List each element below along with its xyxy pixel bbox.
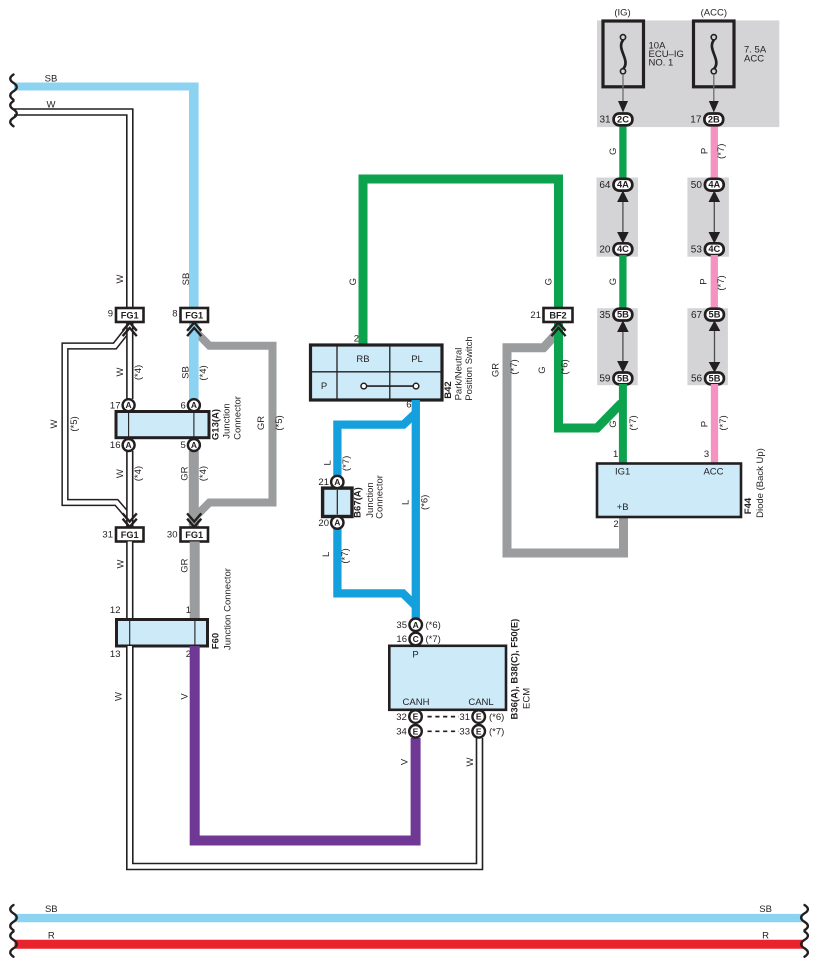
svg-text:GR: GR	[490, 363, 501, 377]
svg-text:F44: F44	[743, 497, 754, 514]
svg-text:CANL: CANL	[468, 697, 493, 708]
ECM pin 35 A (*6)	[396, 619, 440, 632]
junction connector F60	[110, 568, 234, 660]
chevrons below BF2	[551, 323, 565, 337]
wire G B42 pin 2 loop to BF2	[348, 179, 559, 345]
svg-text:50: 50	[691, 180, 703, 191]
svg-text:53: 53	[691, 244, 703, 255]
svg-text:(*4): (*4)	[198, 466, 209, 481]
wire SB (*4) FG1-8 to G13(A) pin 6	[180, 322, 209, 399]
svg-text:(*7): (*7)	[426, 634, 441, 645]
gray block 5B/5B right	[687, 308, 728, 385]
svg-text:IG1: IG1	[615, 467, 630, 478]
wire P (*7) 5B to F44 ACC pin 3	[699, 384, 729, 464]
svg-text:Connector: Connector	[233, 396, 244, 440]
svg-text:6: 6	[181, 400, 186, 411]
svg-text:GR: GR	[179, 466, 190, 480]
svg-text:30: 30	[167, 530, 178, 541]
wire SB (bottom rail)	[15, 904, 804, 918]
svg-text:20: 20	[318, 518, 329, 529]
arrow 5B to 5B left	[617, 320, 629, 372]
svg-text:E: E	[476, 726, 482, 736]
svg-text:(*5): (*5)	[69, 416, 80, 431]
svg-text:35: 35	[599, 310, 611, 321]
svg-text:W: W	[115, 274, 126, 283]
svg-text:Junction Connector: Junction Connector	[223, 568, 234, 650]
svg-text:G: G	[348, 278, 359, 285]
svg-text:Connector: Connector	[375, 475, 386, 519]
svg-text:P: P	[699, 148, 710, 154]
svg-text:3: 3	[704, 449, 709, 460]
svg-text:W: W	[115, 559, 126, 568]
svg-text:V: V	[179, 693, 190, 700]
chevrons above FG1-30	[187, 513, 201, 527]
svg-text:4A: 4A	[708, 180, 720, 190]
ECM pin 33 E (*7)	[459, 725, 504, 738]
svg-text:(*5): (*5)	[274, 415, 285, 430]
svg-text:1: 1	[613, 449, 618, 460]
svg-text:ACC: ACC	[744, 53, 764, 64]
connector 9 FG1	[108, 308, 144, 322]
wire P 4C to 5B	[699, 255, 727, 309]
svg-text:G13(A): G13(A)	[211, 409, 222, 440]
svg-text:W: W	[465, 757, 476, 766]
svg-text:35: 35	[396, 620, 407, 631]
svg-text:Position Switch: Position Switch	[464, 336, 475, 400]
svg-text:ECM: ECM	[522, 688, 533, 709]
svg-text:B67(A): B67(A)	[353, 487, 364, 518]
svg-text:4C: 4C	[617, 244, 629, 254]
svg-text:+B: +B	[617, 502, 629, 513]
svg-text:33: 33	[459, 727, 470, 738]
svg-text:8: 8	[172, 309, 177, 320]
svg-text:(*6): (*6)	[426, 620, 441, 631]
svg-text:(*7): (*7)	[341, 456, 352, 471]
svg-text:2: 2	[613, 519, 618, 530]
svg-text:L: L	[401, 500, 412, 505]
gray block 5B/5B left	[597, 308, 638, 385]
svg-text:20: 20	[599, 244, 611, 255]
svg-text:1: 1	[186, 605, 191, 616]
svg-text:(*7): (*7)	[718, 415, 729, 430]
svg-text:FG1: FG1	[185, 310, 203, 320]
svg-text:W: W	[115, 367, 126, 376]
svg-text:BF2: BF2	[549, 310, 566, 320]
ECM pin 16 C (*7)	[396, 633, 440, 646]
wire R (bottom rail)	[15, 931, 804, 945]
svg-text:P: P	[321, 381, 327, 392]
diode F44 (Back Up)	[597, 448, 766, 518]
svg-text:17: 17	[110, 400, 121, 411]
svg-text:SB: SB	[181, 273, 192, 286]
svg-text:(*6): (*6)	[560, 359, 571, 374]
svg-text:34: 34	[396, 727, 407, 738]
connector oval 17 2B	[690, 114, 723, 126]
svg-text:W: W	[115, 469, 126, 478]
wire G 4C to 5B	[608, 255, 623, 309]
svg-text:Park/Neutral: Park/Neutral	[454, 348, 465, 401]
connector 21 BF2	[530, 308, 572, 322]
wire GR (*4) G13(A) pin 5 to FG1-30	[179, 451, 209, 528]
harness continuation squiggle (SB bottom right)	[801, 905, 808, 930]
wire W F60 pin 13 to ECM pin 33	[113, 646, 479, 867]
svg-text:5B: 5B	[617, 373, 629, 383]
svg-text:GR: GR	[256, 416, 267, 430]
svg-text:A: A	[191, 400, 197, 410]
svg-text:59: 59	[599, 374, 611, 385]
wire W from harness (top left)	[14, 100, 130, 310]
harness continuation squiggle (SB top)	[10, 75, 17, 100]
connector oval 50 4A	[691, 179, 724, 191]
svg-text:PL: PL	[411, 354, 423, 365]
arrow fuse IG to 2C	[618, 74, 628, 113]
svg-text:CANH: CANH	[403, 697, 430, 708]
svg-text:A: A	[126, 400, 132, 410]
chevrons above FG1-31	[123, 513, 137, 527]
svg-text:GR: GR	[179, 558, 190, 572]
svg-text:ACC: ACC	[703, 467, 723, 478]
svg-text:R: R	[762, 931, 769, 942]
wire W (*5) bypass loop left of G13(A)	[49, 332, 129, 518]
arrow 4A to 4C left	[617, 191, 629, 244]
wire L (*6) B42 pin 6 to ECM pin 35	[401, 400, 431, 620]
svg-text:SB: SB	[45, 904, 58, 915]
chevrons below FG1-9	[123, 323, 137, 337]
svg-text:Diode (Back Up): Diode (Back Up)	[755, 448, 766, 518]
svg-text:R: R	[48, 931, 55, 942]
svg-text:21: 21	[530, 310, 541, 321]
arrow 4A to 4C right	[709, 191, 721, 244]
svg-text:4C: 4C	[708, 244, 720, 254]
connector oval 67 5B	[691, 309, 724, 321]
ECM pin 31 E (*6)	[459, 710, 504, 723]
connector oval 59 5B	[599, 373, 632, 385]
gray block 4A/4C right	[687, 178, 729, 257]
svg-text:P: P	[699, 421, 710, 427]
svg-text:B42: B42	[443, 381, 454, 398]
svg-text:21: 21	[318, 477, 329, 488]
svg-text:2: 2	[354, 334, 359, 345]
svg-text:A: A	[413, 620, 419, 630]
svg-text:Junction: Junction	[222, 403, 233, 438]
svg-text:5B: 5B	[709, 373, 721, 383]
fuse 7.5A ACC	[694, 8, 767, 87]
svg-text:9: 9	[108, 309, 113, 320]
G13(A) pin 17	[110, 399, 135, 411]
svg-text:13: 13	[110, 649, 121, 660]
wire L (*7) branch B42 pin 6 to B67(A) pin 21	[323, 413, 416, 477]
svg-text:G: G	[608, 278, 619, 285]
svg-text:G: G	[543, 278, 554, 285]
fuse 10A ECU-IG NO. 1	[603, 8, 684, 87]
svg-text:W: W	[113, 692, 124, 701]
wire P 2B to 4A	[699, 125, 727, 180]
wire G 2C to 4A	[608, 125, 623, 180]
svg-text:2B: 2B	[708, 114, 720, 124]
connector 31 FG1	[102, 528, 143, 542]
harness continuation squiggle (R bottom left)	[10, 932, 17, 957]
svg-text:E: E	[476, 712, 482, 722]
twisted pair dashes between CAN pins	[428, 717, 460, 732]
ECM pin 32 E	[396, 710, 422, 723]
switch B42 Park/Neutral Position Switch	[311, 336, 476, 400]
svg-text:RB: RB	[356, 354, 369, 365]
svg-text:G: G	[608, 420, 619, 427]
harness continuation squiggle (SB bottom left)	[10, 905, 17, 930]
svg-text:5B: 5B	[617, 310, 629, 320]
svg-text:V: V	[400, 758, 411, 765]
svg-text:6: 6	[406, 400, 411, 411]
arrow 5B to 5B right	[709, 320, 721, 372]
wire G (*6) BF2 to junction below 5B	[537, 322, 622, 428]
connector 30 FG1	[167, 528, 208, 542]
wire W (*4) FG1-9 to G13(A) pin 17 and pin 16 to FG1-31	[115, 322, 144, 528]
connector oval 56 5B	[691, 373, 724, 385]
svg-text:(IG): (IG)	[614, 8, 630, 19]
wire V F60 pin 2 to ECM pin 34	[179, 646, 415, 841]
B67(A) pin 20	[318, 516, 343, 528]
connector oval 20 4C	[599, 243, 632, 255]
svg-text:(*6): (*6)	[489, 712, 504, 723]
svg-text:E: E	[413, 726, 419, 736]
svg-text:67: 67	[691, 310, 703, 321]
gray block 4A/4C left	[597, 178, 639, 257]
svg-text:(*7): (*7)	[340, 548, 351, 563]
svg-text:16: 16	[396, 634, 407, 645]
harness continuation squiggle (W top)	[10, 101, 17, 126]
svg-text:31: 31	[599, 115, 611, 126]
svg-text:31: 31	[102, 530, 113, 541]
svg-text:(*4): (*4)	[198, 365, 209, 380]
wire GR FG1-30 to F60 pin 1	[179, 542, 194, 621]
svg-text:(ACC): (ACC)	[701, 8, 727, 19]
arrow fuse ACC to 2B	[709, 74, 719, 113]
junction connector B67(A)	[323, 475, 386, 519]
svg-text:(*6): (*6)	[419, 495, 430, 510]
G13(A) pin 16	[110, 439, 135, 451]
svg-text:5B: 5B	[709, 310, 721, 320]
svg-text:NO. 1: NO. 1	[649, 58, 674, 69]
svg-text:SB: SB	[45, 74, 58, 85]
svg-text:2C: 2C	[617, 114, 629, 124]
connector oval 53 4C	[691, 243, 724, 255]
svg-text:(*7): (*7)	[628, 415, 639, 430]
svg-text:(*7): (*7)	[509, 359, 520, 374]
ECM pin 34 E	[396, 725, 422, 738]
connector oval 64 4A	[599, 179, 632, 191]
svg-text:L: L	[323, 460, 334, 465]
svg-text:12: 12	[110, 605, 121, 616]
svg-text:16: 16	[110, 440, 121, 451]
svg-text:L: L	[321, 552, 332, 557]
wire GR BF2 to F44 +B pin 2	[490, 333, 623, 554]
svg-text:4A: 4A	[617, 180, 629, 190]
G13(A) pin 5	[181, 439, 200, 451]
junction connector G13(A)	[116, 396, 244, 440]
svg-text:64: 64	[599, 180, 611, 191]
svg-text:56: 56	[691, 374, 703, 385]
svg-text:(*4): (*4)	[133, 466, 144, 481]
wire W FG1-31 to F60 pin 12	[115, 542, 130, 621]
svg-text:A: A	[126, 440, 132, 450]
svg-text:G: G	[537, 366, 548, 373]
svg-text:P: P	[412, 650, 418, 661]
svg-text:A: A	[334, 477, 340, 487]
wire GR (*5) bypass loop right of G13(A)	[196, 332, 285, 516]
svg-text:31: 31	[459, 712, 470, 723]
svg-text:W: W	[49, 419, 60, 428]
svg-text:(*7): (*7)	[716, 275, 727, 290]
harness continuation squiggle (R bottom right)	[801, 932, 808, 957]
ECM box	[389, 619, 532, 720]
svg-text:W: W	[47, 100, 56, 111]
connector oval 35 5B	[599, 309, 632, 321]
svg-text:FG1: FG1	[185, 530, 203, 540]
svg-text:32: 32	[396, 712, 407, 723]
svg-text:(*7): (*7)	[489, 727, 504, 738]
wire G (*7) 5B to F44 IG1 pin 1	[608, 384, 639, 464]
svg-text:FG1: FG1	[121, 530, 139, 540]
connector 8 FG1	[172, 308, 208, 322]
svg-text:A: A	[334, 518, 340, 528]
svg-text:(*4): (*4)	[133, 365, 144, 380]
connector oval 31 2C	[599, 114, 632, 126]
fuse block gray band	[597, 20, 779, 127]
wire L (*7) B67(A) pin 20 to junction above ECM	[321, 528, 415, 606]
wire SB from harness (top left)	[14, 74, 194, 310]
svg-text:SB: SB	[759, 904, 772, 915]
svg-text:17: 17	[690, 115, 702, 126]
svg-text:G: G	[608, 148, 619, 155]
svg-text:5: 5	[181, 440, 186, 451]
G13(A) pin 6	[181, 399, 200, 411]
svg-text:P: P	[699, 278, 710, 284]
chevrons below FG1-8	[187, 323, 201, 337]
B67(A) pin 21	[318, 476, 343, 488]
svg-text:FG1: FG1	[121, 310, 139, 320]
svg-text:B36(A), B38(C), F50(E): B36(A), B38(C), F50(E)	[510, 619, 521, 720]
svg-text:(*7): (*7)	[716, 144, 727, 159]
svg-text:C: C	[413, 634, 419, 644]
svg-text:F60: F60	[211, 633, 222, 649]
svg-text:A: A	[191, 440, 197, 450]
svg-text:SB: SB	[180, 366, 191, 379]
svg-text:E: E	[413, 712, 419, 722]
